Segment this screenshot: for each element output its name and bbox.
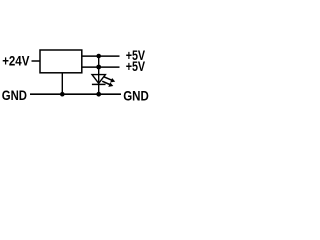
- junction dot GND stub: [60, 92, 65, 97]
- LED D1 triangle: [92, 75, 105, 84]
- wire +5V rail 2: [82, 66, 120, 68]
- svg-text:+5V: +5V: [126, 59, 145, 74]
- LED emission arrow 1: [104, 77, 116, 83]
- junction dot rail2: [96, 65, 101, 70]
- wire +24V lead: [32, 60, 41, 62]
- svg-text:GND: GND: [123, 88, 149, 103]
- power supply box U1: [40, 50, 82, 73]
- wire box to ground: [61, 73, 63, 94]
- LED emission arrow 2: [102, 81, 113, 87]
- wire +5V rail 1: [82, 55, 120, 57]
- wire GND rail: [30, 93, 121, 95]
- svg-text:GND: GND: [2, 88, 27, 103]
- svg-text:+24V: +24V: [2, 54, 29, 69]
- wire vertical bus: [98, 56, 100, 94]
- LED D1 cathode bar: [92, 83, 106, 85]
- junction dot GND bus: [96, 92, 101, 97]
- junction dot rail1: [96, 54, 101, 59]
